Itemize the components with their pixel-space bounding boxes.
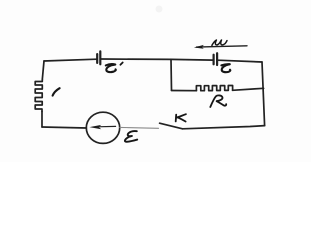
- label K: [176, 114, 186, 121]
- wire E to switch: [120, 126, 159, 129]
- wire R branch left: [172, 90, 197, 92]
- switch K arm: [160, 123, 183, 129]
- source E arrowhead: [89, 125, 101, 129]
- wire box left vertical: [170, 59, 173, 90]
- label C': [106, 63, 123, 73]
- label r: [53, 88, 60, 95]
- wire top-left segment: [44, 59, 97, 61]
- wire top-middle segment: [101, 59, 213, 60]
- label R: [210, 95, 226, 107]
- resistor R: [196, 86, 232, 91]
- wire top-right segment: [218, 60, 262, 62]
- source E arrow shaft: [97, 125, 116, 127]
- wire R branch right: [233, 88, 264, 90]
- label u: [212, 40, 227, 45]
- wire left vertical top: [42, 61, 44, 80]
- capacitor C: [214, 53, 218, 65]
- wire right vertical: [262, 62, 265, 126]
- label E: [125, 131, 137, 142]
- arrow u line: [197, 46, 248, 47]
- wire bottom-right segment: [183, 126, 265, 129]
- faint smudge top: [156, 6, 163, 13]
- capacitor C': [97, 51, 100, 64]
- source E: [86, 112, 119, 143]
- label C: [221, 64, 230, 72]
- wire bottom-left segment: [42, 127, 86, 128]
- wire left vertical bottom: [41, 112, 43, 128]
- resistor r: [35, 80, 42, 112]
- arrow u head: [194, 45, 204, 49]
